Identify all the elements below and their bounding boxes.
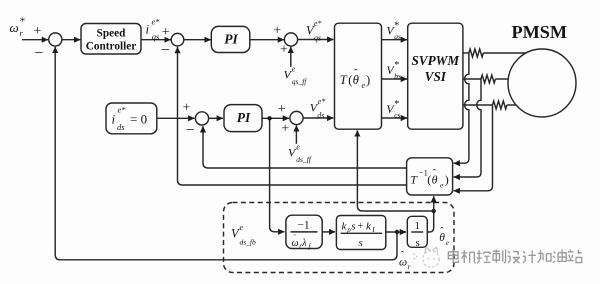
label V_ds_ff^e (d feedforward) [288, 142, 312, 164]
wire T inverse d-feedback to junction Sd [203, 126, 407, 168]
block T inverse (abc-to-dq transform) [407, 158, 453, 195]
svg-text:s: s [351, 220, 355, 232]
wire V_qs_ff into S3 [290, 47, 292, 67]
summing junction S3 [273, 24, 297, 58]
svg-text:*: * [20, 16, 26, 28]
block i_ds reference = 0 [106, 103, 157, 134]
junction node N3 theta_e [432, 209, 436, 213]
watermark text (stylized CJK strokes) [448, 249, 581, 263]
svg-text:+: + [358, 221, 364, 232]
svg-text:qs_ff: qs_ff [292, 77, 308, 86]
svg-text:Controller: Controller [86, 40, 137, 52]
wire T to SVPWM phase c [382, 117, 408, 119]
wire phase c sense line down to T inverse [454, 105, 493, 191]
block B1 gain -1/(omega lambda_f) [286, 215, 322, 250]
wire phase b to motor [463, 78, 481, 80]
svg-text:ˆ: ˆ [354, 68, 358, 80]
svg-text:−: − [34, 45, 43, 62]
svg-text:e*: e* [118, 105, 127, 115]
svg-text:T: T [340, 73, 348, 87]
wire phase a sense line down to T inverse (with hops) [454, 53, 469, 163]
motor PMSM circle [508, 49, 576, 117]
svg-text:ds_ff: ds_ff [296, 155, 312, 164]
svg-text:cs: cs [394, 110, 400, 119]
wire T inverse q-feedback to junction S2 [178, 47, 407, 185]
svg-text:λ: λ [301, 238, 307, 249]
svg-text:SVPWM: SVPWM [411, 53, 460, 68]
node label omega_r estimate [399, 251, 411, 271]
junction node after PI d [267, 116, 271, 120]
label V_qs_ff^e (q feedforward) [284, 65, 308, 87]
wire resistor c to motor [507, 104, 519, 106]
svg-text:as: as [394, 32, 401, 41]
wire theta_e to T block [357, 130, 433, 211]
resistor phase b [481, 75, 495, 83]
wire T to SVPWM phase a [382, 39, 408, 41]
wire S4 to T block [303, 117, 333, 119]
block T(theta_e) dq-to-abc transform [335, 23, 382, 129]
watermark logo cat [414, 247, 440, 267]
node label theta_e estimate [439, 226, 449, 247]
wire integrator output up to theta node [427, 196, 433, 232]
junction node N2 (omega_r estimate) [395, 230, 399, 234]
svg-text:i: i [146, 22, 150, 37]
svg-text:+: + [273, 24, 281, 39]
block PI q-axis controller [211, 26, 250, 52]
svg-text:ω: ω [10, 20, 19, 35]
svg-text:e: e [292, 65, 296, 74]
resistor phase c [493, 101, 507, 109]
svg-text:s: s [359, 237, 363, 249]
block B3 integrator 1/s [407, 216, 427, 249]
block SVPWM VSI inverter [408, 23, 463, 129]
svg-text:+: + [280, 42, 288, 57]
svg-text:e: e [240, 223, 244, 232]
svg-text:e*: e* [314, 19, 322, 28]
svg-text:ds: ds [117, 122, 125, 132]
wire i_ds box to summing junction Sd [157, 117, 195, 119]
svg-text:r: r [408, 262, 411, 271]
node label V_as* [387, 21, 401, 41]
wire B2 to B3 [386, 231, 406, 233]
svg-text:PI: PI [224, 32, 238, 47]
node label V_ds_fb^e [231, 223, 256, 247]
svg-text:s: s [415, 237, 419, 249]
node label V_cs* [387, 99, 401, 119]
wire phase c to motor [463, 104, 493, 106]
svg-text:−: − [186, 122, 195, 139]
wire resistor a to motor [483, 52, 526, 54]
wire S1 to Speed Controller [62, 39, 80, 41]
wire node after PI d down to estimator block B1 [270, 121, 285, 232]
wire omega_r* to summing junction S1 [22, 39, 48, 41]
wire S3 to T block [298, 39, 334, 41]
summing junction Sd [183, 101, 209, 139]
wire S2 to PI q-axis [184, 39, 211, 41]
wire Speed Controller to summing junction S2 [141, 39, 171, 41]
summing junction S1 [34, 24, 62, 62]
wire PI to summing junction S3 [250, 39, 284, 41]
svg-text:ds_fb: ds_fb [240, 238, 257, 247]
svg-text:*: * [394, 99, 399, 110]
summing junction S2 [161, 25, 184, 59]
svg-text:+: + [278, 102, 286, 117]
svg-text:*: * [394, 60, 399, 71]
svg-text:bs: bs [394, 71, 401, 80]
svg-text:VSI: VSI [425, 69, 447, 84]
svg-text:= 0: = 0 [130, 112, 147, 127]
node label i_qs^e* (q current reference) [146, 17, 161, 42]
block PI d-axis controller [224, 105, 262, 132]
svg-text:e: e [362, 81, 366, 90]
block Speed Controller [81, 24, 141, 55]
svg-text:e*: e* [318, 97, 326, 106]
svg-text:i: i [112, 112, 116, 127]
svg-text:−1: −1 [297, 220, 309, 232]
svg-text:ds: ds [317, 111, 324, 120]
svg-text:Speed: Speed [97, 28, 127, 40]
svg-text:1: 1 [415, 220, 421, 232]
block B2 PI estimator (kp s + kI)/s [336, 216, 385, 250]
wire B1 to B2 [322, 231, 335, 233]
resistor phase a [469, 49, 483, 57]
wire Sd to PI d-axis [209, 117, 223, 119]
summing junction S4 [278, 102, 303, 137]
wire omega_r feedback to S1 [55, 47, 397, 260]
svg-text:): ) [366, 73, 370, 87]
svg-text:−: − [161, 42, 170, 59]
svg-text:qs: qs [152, 32, 160, 42]
wire PI d to summing junction S4 [262, 117, 289, 119]
wire V_ds_ff into S4 [295, 125, 297, 143]
svg-text:+: + [34, 24, 42, 39]
svg-text:*: * [394, 21, 399, 32]
svg-text:+: + [162, 25, 170, 40]
node label V_ds^e* [310, 97, 326, 120]
wire phase a to motor [463, 52, 469, 54]
svg-text:): ) [445, 173, 449, 187]
node label V_bs* [387, 60, 401, 80]
node label V_qs^e* [306, 19, 322, 43]
wire resistor b to motor [495, 78, 509, 80]
estimator dashed box [224, 203, 455, 273]
svg-text:qs: qs [314, 34, 321, 43]
wire T to SVPWM phase b [382, 78, 408, 80]
svg-text:+: + [183, 101, 191, 116]
svg-text:PI: PI [237, 110, 251, 125]
svg-text:+: + [281, 121, 289, 136]
node label omega_r* (speed reference) [10, 16, 26, 38]
svg-text:e*: e* [152, 17, 161, 27]
wire phase b sense line down to T inverse (with hop) [454, 79, 481, 177]
svg-text:PMSM: PMSM [512, 22, 568, 42]
